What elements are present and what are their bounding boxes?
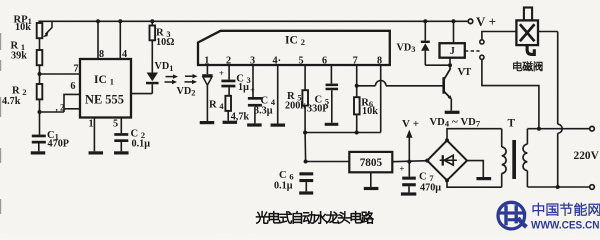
label 7805: [360, 157, 383, 169]
wire pin6 IC1: [64, 94, 80, 112]
ground R4: [223, 121, 238, 124]
relay coil J box: [440, 43, 465, 58]
wire mains top: [527, 128, 589, 130]
svg-text:6: 6: [70, 81, 75, 92]
potentiometer RP1: [37, 21, 52, 38]
LED VD1: [146, 73, 159, 94]
svg-text:4.7k: 4.7k: [2, 96, 21, 107]
ground C7: [401, 192, 416, 195]
wire pin3 IC2: [252, 65, 254, 97]
capacitor C3: [219, 68, 235, 96]
wire VD3 to collector: [425, 64, 450, 66]
svg-text:T: T: [508, 117, 516, 129]
label VD2: [177, 86, 196, 98]
svg-text:VD3: VD3: [397, 42, 416, 54]
capacitor C7: [400, 162, 416, 193]
wire pin6 IC2: [330, 65, 332, 84]
ground bridge: [476, 177, 491, 180]
svg-text:330P: 330P: [307, 104, 329, 115]
wire pin5 IC1: [120, 118, 122, 134]
svg-text:J: J: [450, 46, 455, 57]
svg-text:4: 4: [122, 49, 127, 60]
resistor R5: [302, 90, 308, 132]
bridge inner diode: [440, 155, 457, 165]
caption text: [256, 211, 374, 223]
pin 7 label IC1: [73, 64, 78, 75]
wire supply rail under IC2: [305, 132, 381, 134]
node R6 bottom: [355, 131, 359, 135]
terminal mains top: [590, 126, 595, 131]
wire pin8 IC2: [380, 65, 382, 133]
wire 7805 output: [392, 161, 427, 162]
wire pin1 IC2: [206, 65, 208, 74]
node C6 top: [304, 160, 308, 164]
relay contact switch: [480, 40, 484, 60]
ground C2: [114, 151, 129, 154]
node pin7 base junction: [355, 84, 359, 88]
wire pin3 IC1: [131, 93, 152, 95]
svg-text:3.3μ: 3.3μ: [254, 105, 273, 116]
wire contact top to valve: [482, 32, 517, 40]
V+ arrow mid: [406, 130, 412, 162]
svg-text:~: ~: [452, 116, 458, 128]
wire pin2 IC1: [40, 109, 81, 112]
wire valve down with hop: [558, 32, 563, 188]
pin 8 label IC1: [99, 49, 104, 60]
diode VD3: [421, 21, 430, 65]
op-amp U1 IC1 NE555 box: [80, 59, 131, 118]
svg-text:8: 8: [377, 55, 382, 66]
light arrows VD1-VD2: [165, 74, 198, 84]
ground C5: [325, 123, 339, 126]
label RP1: [14, 14, 32, 33]
wire R1-R2: [39, 38, 41, 84]
svg-text:2: 2: [226, 55, 231, 66]
label R5: [285, 91, 306, 111]
svg-text:4·: 4·: [273, 55, 282, 66]
wire pin4 IC2: [277, 65, 279, 124]
transistor VT: [442, 65, 452, 111]
wire bridge top to transformer: [447, 129, 502, 141]
label IC1: [85, 73, 124, 106]
label C2: [131, 129, 151, 150]
edge artifacts: [0, 33, 1, 214]
pin 2 label IC1: [56, 103, 66, 113]
svg-text:WWW.CES.CN: WWW.CES.CN: [531, 220, 600, 232]
node C7 top: [407, 160, 411, 164]
label VD3: [397, 42, 416, 54]
svg-text:7805: 7805: [360, 157, 383, 169]
svg-text:+: +: [250, 85, 255, 95]
node R1 bottom: [38, 72, 42, 76]
capacitor C4: [248, 85, 262, 124]
node bridge left: [425, 159, 429, 163]
svg-text:470P: 470P: [48, 138, 70, 149]
label 220V: [574, 150, 600, 162]
svg-text:VD2: VD2: [177, 86, 196, 98]
svg-text:10k: 10k: [15, 22, 31, 33]
dashed link J to contact: [465, 50, 480, 52]
svg-text:+: +: [219, 68, 224, 78]
node VT collector: [448, 63, 452, 67]
solenoid valve symbol: [516, 8, 538, 55]
wire bridge bottom to transformer: [447, 180, 502, 187]
label T: [508, 117, 516, 129]
wire R2-C1: [39, 99, 41, 134]
terminal mains bottom: [590, 185, 595, 190]
pin labels IC2 1-8: [204, 55, 382, 66]
transformer T primary: [502, 129, 506, 188]
wire pin7 IC1: [40, 73, 81, 75]
label C1: [47, 130, 69, 149]
photodiode VD2: [202, 74, 212, 121]
svg-text:10k: 10k: [362, 106, 378, 117]
node VD3 top: [423, 19, 427, 23]
svg-text:1μ: 1μ: [238, 82, 249, 93]
svg-text:V +: V +: [476, 14, 496, 29]
capacitor C2: [114, 133, 128, 151]
wire mains bottom: [527, 186, 589, 188]
svg-text:7: 7: [73, 64, 78, 75]
svg-text:C 7: C 7: [419, 171, 434, 183]
wire J top: [452, 19, 456, 43]
pin 1 label IC1: [88, 119, 93, 130]
node R3 top: [150, 19, 154, 23]
label R3: [156, 27, 174, 48]
label R2: [2, 85, 27, 107]
wire R5 to 7805 input: [304, 133, 307, 162]
wire pin8 IC1: [96, 19, 100, 59]
svg-text:7: 7: [353, 55, 358, 66]
resistor R2: [37, 84, 43, 99]
node bridge bottom: [445, 178, 449, 182]
label C4: [254, 95, 276, 116]
op-amp U2 IC2 box: [198, 31, 390, 65]
resistor R4: [225, 96, 231, 121]
regulator 7805 box: [349, 152, 392, 172]
label VT: [458, 67, 472, 78]
svg-text:VD4: VD4: [430, 117, 450, 129]
svg-text:200k: 200k: [285, 100, 306, 111]
svg-text:0.1μ: 0.1μ: [132, 138, 151, 149]
wire J bottom: [449, 58, 451, 65]
svg-text:VD7: VD7: [461, 117, 481, 129]
svg-text:R 2: R 2: [12, 85, 27, 97]
transformer T secondary: [523, 129, 527, 187]
wire VT base from pin7: [357, 81, 443, 86]
svg-text:39k: 39k: [11, 51, 27, 62]
label C5: [307, 95, 329, 115]
wire pin5 IC2: [304, 65, 306, 90]
svg-text:220V: 220V: [574, 150, 600, 162]
wire contact bottom to mains: [482, 59, 539, 128]
label C3: [236, 73, 251, 93]
terminal V+ top: [468, 19, 473, 24]
ground pin1 IC1: [89, 151, 104, 154]
svg-text:8: 8: [99, 49, 104, 60]
bridge rectifier VD4-VD7 diamond: [427, 140, 467, 180]
label R1: [11, 40, 28, 61]
node R5 bottom: [303, 131, 307, 135]
label solenoid valve: [514, 62, 543, 72]
label V+ top: [476, 14, 496, 29]
label R6: [361, 97, 378, 117]
wire pin2 IC2: [228, 65, 230, 80]
svg-text:10Ω: 10Ω: [156, 37, 174, 48]
label IC2: [285, 34, 305, 48]
label VD4~VD7: [430, 116, 481, 129]
svg-text:4,7k: 4,7k: [231, 111, 250, 122]
label R4: [209, 99, 249, 122]
svg-text:, 2: , 2: [56, 103, 66, 113]
wire bridge right to ground: [467, 161, 483, 177]
svg-text:470μ: 470μ: [420, 182, 441, 193]
wire valve right: [538, 31, 558, 33]
node R2 bottom: [38, 110, 42, 114]
label V+ mid: [402, 118, 419, 130]
svg-text:VD1: VD1: [155, 61, 174, 73]
ground 7805: [364, 172, 379, 190]
label J: [450, 46, 455, 57]
wire pin7 IC2: [356, 65, 358, 97]
svg-text:NE 555: NE 555: [85, 92, 124, 106]
svg-text:5: 5: [298, 55, 303, 66]
svg-text:+: +: [400, 163, 405, 173]
wire pin1 IC1: [93, 118, 95, 152]
label C6: [274, 170, 294, 192]
capacitor C6: [299, 172, 313, 191]
ground C1: [31, 151, 46, 154]
wire pin4 IC1: [118, 19, 122, 59]
watermark url: [531, 220, 600, 232]
pin 4 label IC1: [122, 49, 127, 60]
svg-text:V +: V +: [402, 118, 419, 130]
svg-text:1: 1: [88, 119, 93, 130]
resistor R1: [37, 50, 43, 65]
svg-text:R 4: R 4: [209, 99, 224, 111]
capacitor C5: [326, 84, 339, 123]
svg-text:T: T: [465, 67, 472, 78]
pin 6 label IC1: [70, 81, 75, 92]
watermark logo: [498, 202, 528, 229]
svg-text:0.1μ: 0.1μ: [274, 180, 293, 191]
svg-text:1: 1: [204, 55, 209, 66]
wire 7805 input: [306, 161, 350, 163]
node bridge top: [445, 138, 449, 142]
wire top V+ rail: [38, 20, 467, 22]
ground C4: [247, 123, 262, 126]
pin 5 label IC1: [113, 118, 118, 129]
label C7: [419, 171, 441, 193]
ground VT emitter: [445, 111, 460, 114]
node contact wire on mains: [537, 127, 541, 131]
svg-text:5: 5: [113, 118, 118, 129]
svg-text:6: 6: [322, 55, 327, 66]
capacitor C1: [32, 135, 46, 152]
label VD1: [155, 61, 174, 73]
ground VD2: [200, 121, 215, 124]
ground pin4 IC2: [271, 124, 286, 127]
node valve wire on mains bottom: [556, 185, 560, 189]
resistor R6: [354, 97, 360, 132]
svg-text:3: 3: [250, 55, 255, 66]
watermark text cn: [533, 203, 600, 216]
ground C6: [299, 191, 313, 194]
transformer T core: [512, 140, 516, 179]
resistor R3: [150, 21, 156, 72]
